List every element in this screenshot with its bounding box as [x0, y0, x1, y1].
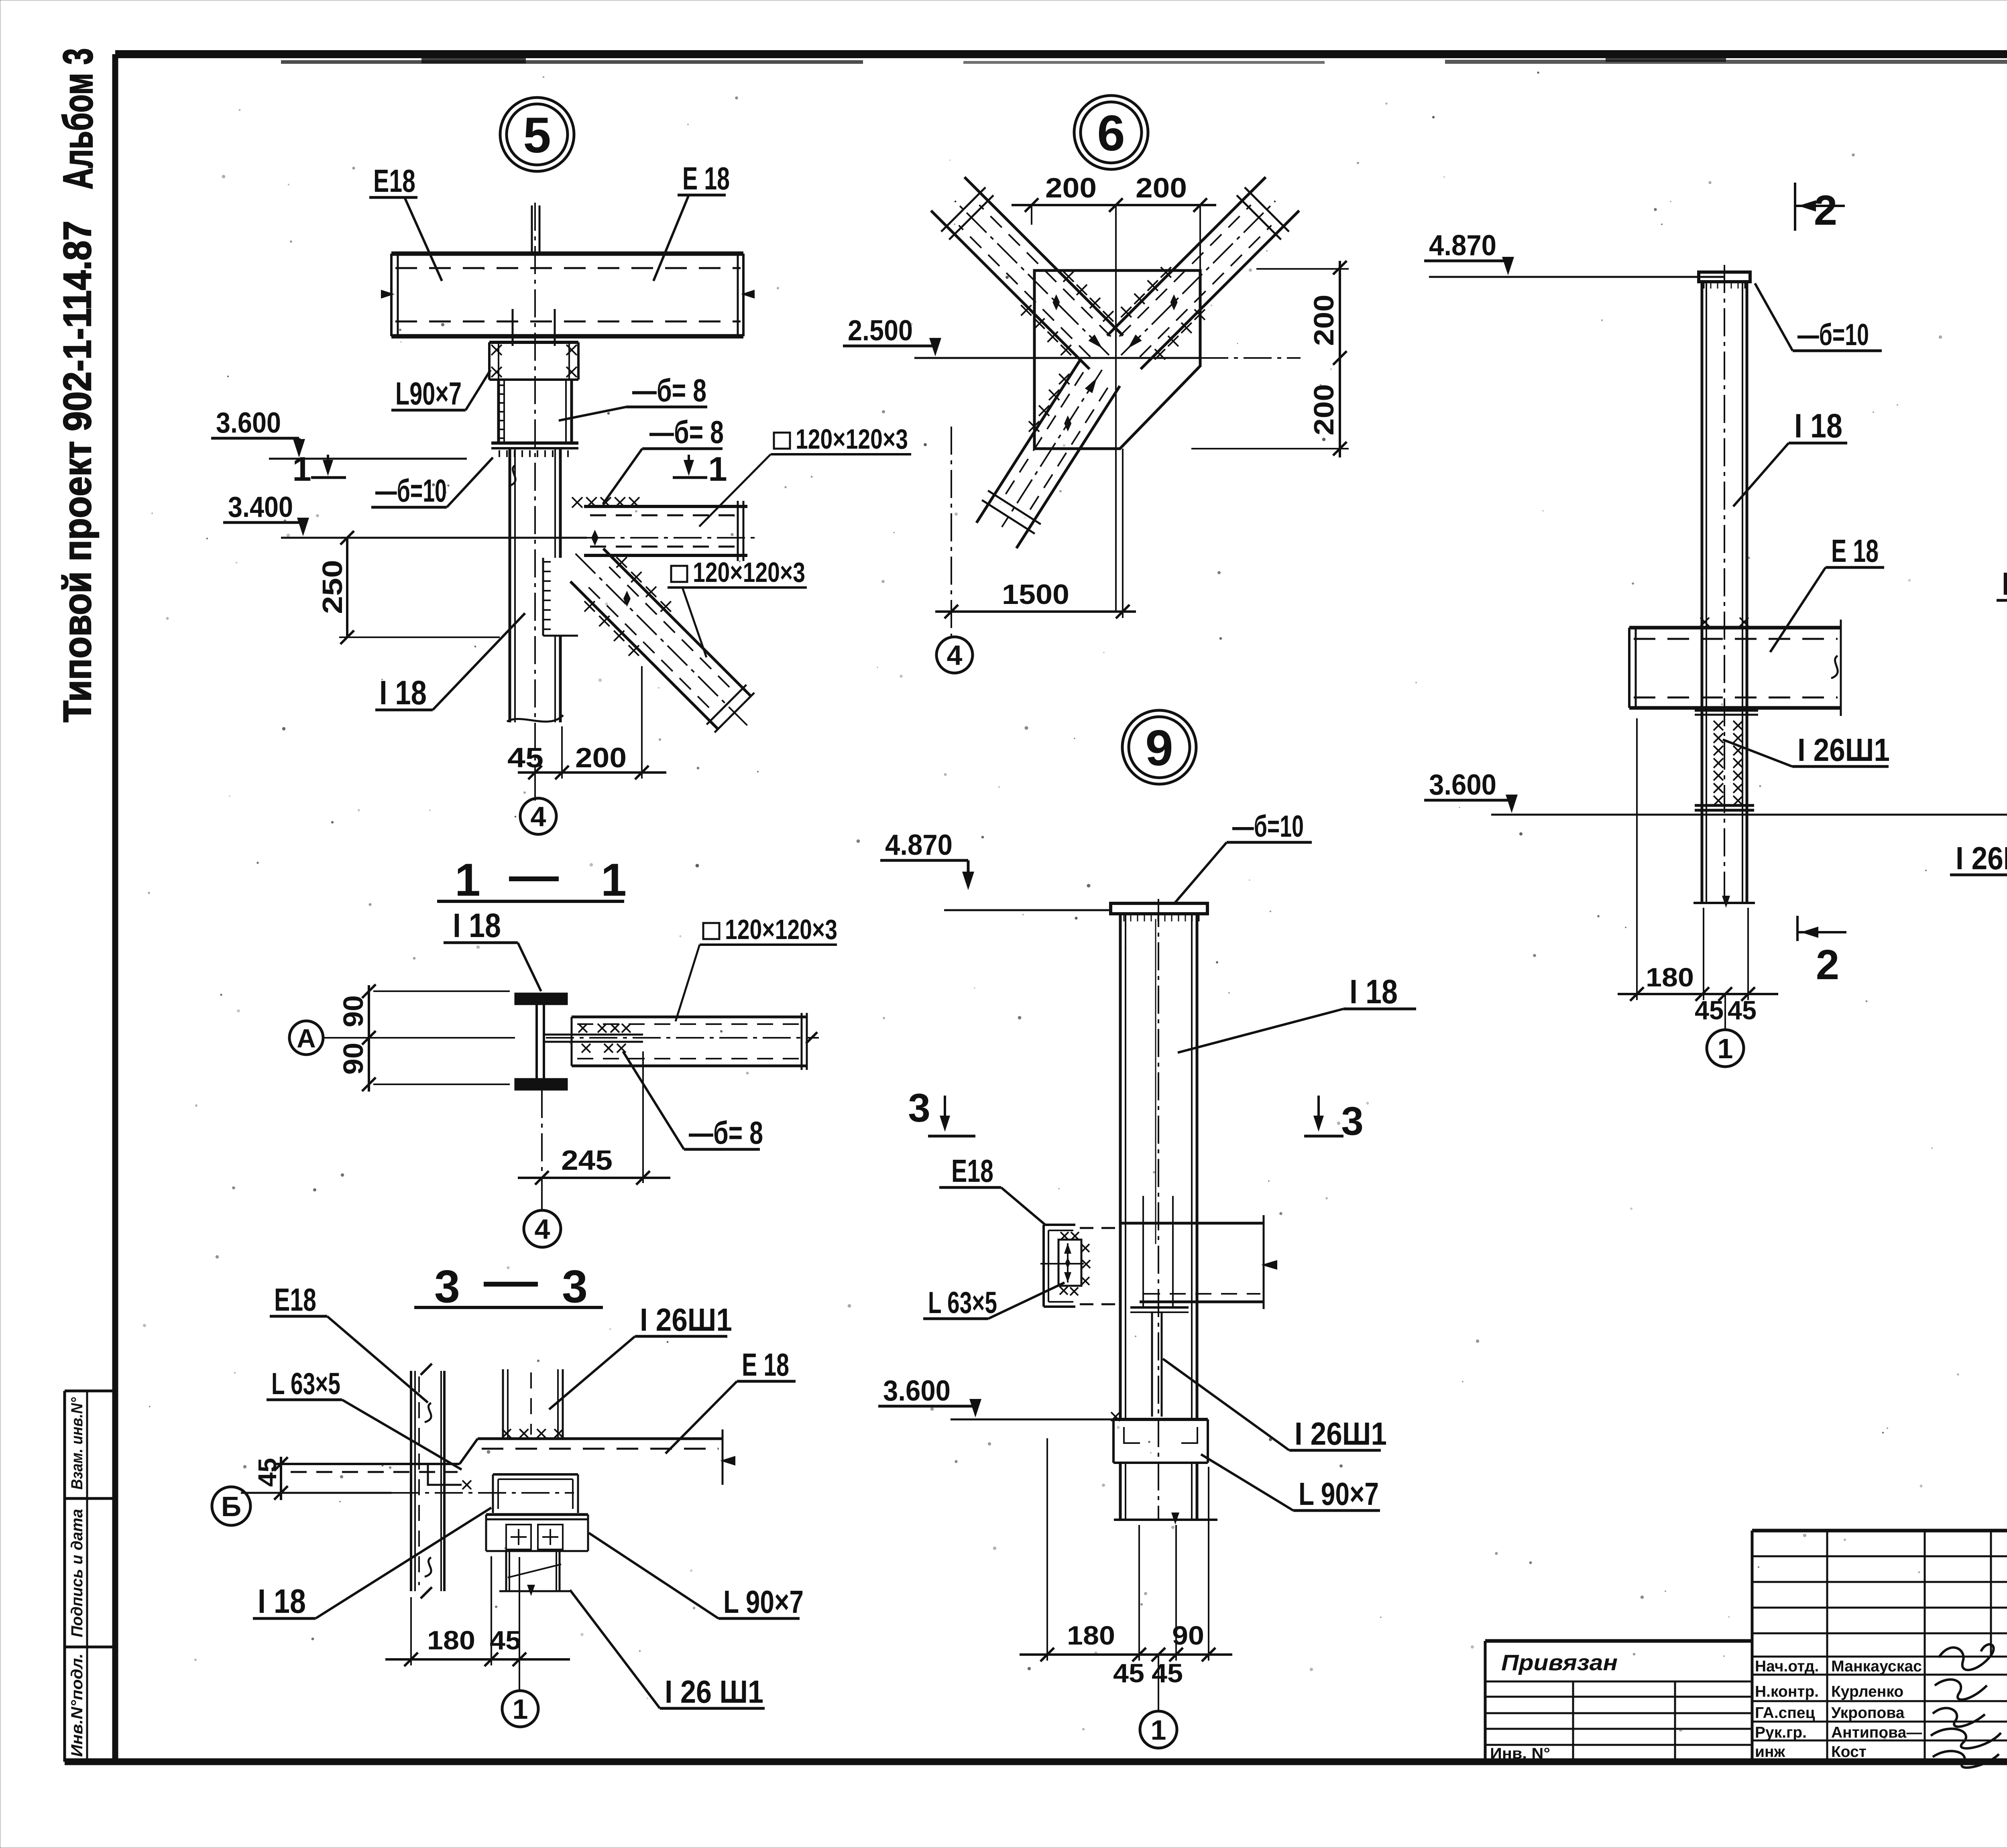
- svg-text:L 63×5: L 63×5: [271, 1367, 340, 1401]
- svg-text:9: 9: [1145, 720, 1173, 776]
- connection plate -b=8 (section 1-1): [544, 1034, 643, 1036]
- svg-text:Е 18: Е 18: [742, 1347, 789, 1382]
- column stub above beam: [531, 205, 533, 254]
- column flange lines through beam: [512, 309, 514, 346]
- svg-text:I 18: I 18: [453, 907, 501, 944]
- svg-text:1: 1: [513, 1693, 528, 1725]
- svg-text:L 90×7: L 90×7: [1299, 1476, 1379, 1512]
- node 6 marker circle: [1074, 96, 1148, 169]
- svg-text:200: 200: [575, 742, 627, 773]
- svg-text:2.500: 2.500: [848, 315, 913, 347]
- grid axis circle A (section 1-1): [289, 1021, 323, 1055]
- gusset plate (node 6): [1034, 270, 1200, 449]
- svg-text:245: 245: [561, 1145, 613, 1176]
- svg-text:I 26Ш1: I 26Ш1: [640, 1302, 732, 1338]
- svg-text:90: 90: [338, 995, 369, 1027]
- dimension 90 90 (section 1-1): [373, 990, 510, 992]
- svg-text:—б=10: —б=10: [1232, 809, 1304, 844]
- beam bottom lines (detail 9): [1080, 1303, 1116, 1305]
- node 9 marker circle: [1122, 710, 1196, 784]
- svg-text:3.600: 3.600: [216, 407, 281, 439]
- L63 angle at purlin (section 3-3): [428, 1464, 462, 1485]
- I26Sh1 strip (section 3-3): [502, 1369, 504, 1437]
- svg-text:—б= 8: —б= 8: [632, 372, 706, 408]
- beam cut marks: [381, 290, 395, 299]
- node 6 vertical center line: [1115, 205, 1117, 612]
- column below level line (detail 8): [1694, 902, 1755, 904]
- grid axis circle B (section 3-3): [212, 1487, 250, 1525]
- svg-text:120×120×3: 120×120×3: [725, 914, 837, 945]
- diagonal brace square tube 120x120x3: [603, 549, 751, 696]
- stub base plate (detail 8): [1695, 804, 1754, 807]
- label tube 120x120x3 (horizontal): [774, 433, 790, 449]
- svg-text:инж: инж: [1755, 1743, 1785, 1761]
- svg-text:3.400: 3.400: [228, 491, 293, 523]
- svg-text:Нач.отд.: Нач.отд.: [1755, 1658, 1819, 1675]
- svg-text:Н.контр.: Н.контр.: [1755, 1683, 1819, 1700]
- title block attachment table Privyazan: [1485, 1639, 1752, 1643]
- level line 3.400 / horizontal brace axis: [281, 537, 587, 539]
- svg-text:Привязан: Привязан: [1501, 1650, 1618, 1675]
- svg-text:Е18: Е18: [274, 1282, 316, 1317]
- level line 4.870 (detail 9): [944, 909, 1110, 911]
- dimension 180 45 45 90 (detail 9): [1046, 1438, 1048, 1661]
- beam top flange line (section 3-3): [276, 1463, 460, 1465]
- svg-text:I 26Ш1: I 26Ш1: [1956, 840, 2007, 876]
- svg-text:Рук.гр.: Рук.гр.: [1755, 1724, 1807, 1741]
- node 6 horizontal center line: [914, 357, 1200, 359]
- title block signatures table: [1752, 1529, 2007, 1533]
- svg-text:Е18: Е18: [373, 163, 415, 199]
- svg-text:Манкаускас: Манкаускас: [1831, 1658, 1922, 1675]
- svg-text:—б=10: —б=10: [1797, 318, 1869, 352]
- dimension 180 45 45 (detail 8): [1636, 718, 1638, 1000]
- grid axis circle 4 (node 6): [936, 637, 973, 673]
- svg-text:2: 2: [1816, 941, 1839, 988]
- grid axis circle 1 (detail 9): [1158, 1655, 1159, 1710]
- dimension 45 200 (detail 5): [561, 726, 563, 779]
- svg-text:I 26 Ш1: I 26 Ш1: [665, 1674, 763, 1710]
- label tube 120x120x3 (section 1-1): [703, 923, 719, 939]
- svg-text:45: 45: [490, 1625, 521, 1655]
- svg-text:1: 1: [601, 854, 627, 906]
- svg-text:120×120×3: 120×120×3: [796, 423, 908, 455]
- column I18 (detail 9): [1119, 914, 1122, 1419]
- level line 3.600 (detail 9): [951, 1419, 1113, 1421]
- column I18 (detail 8): [1701, 281, 1704, 903]
- bracket inner box with weld symbol: [1058, 1240, 1081, 1286]
- svg-text:3.600: 3.600: [1429, 769, 1496, 801]
- inner web lines (detail 9): [1142, 1196, 1144, 1307]
- svg-text:I 18: I 18: [379, 674, 427, 712]
- svg-text:3: 3: [908, 1086, 930, 1130]
- svg-text:Е 18: Е 18: [2002, 566, 2007, 602]
- column I18 axis line: [534, 203, 536, 801]
- svg-text:Антипова—: Антипова—: [1831, 1724, 1922, 1741]
- svg-text:2: 2: [1814, 187, 1837, 234]
- svg-text:4.870: 4.870: [885, 829, 953, 861]
- signature scribbles: [1939, 1644, 1994, 1670]
- svg-text:4.870: 4.870: [1429, 230, 1496, 262]
- level line 3.600: [269, 458, 467, 460]
- svg-text:Взам. инв.N°: Взам. инв.N°: [68, 1397, 86, 1490]
- gusset plate edge with weld comb: [542, 558, 544, 636]
- svg-text:L 63×5: L 63×5: [928, 1286, 997, 1320]
- svg-text:—б= 8: —б= 8: [649, 414, 724, 450]
- column splice stub I26Sh1 (detail 8): [1695, 709, 1758, 712]
- svg-text:45: 45: [253, 1458, 282, 1487]
- svg-text:L90×7: L90×7: [395, 376, 462, 411]
- svg-text:Инв. N°: Инв. N°: [1490, 1745, 1550, 1762]
- beam top line (detail 9): [1080, 1227, 1117, 1229]
- dimension 45 (section 3-3): [280, 1457, 282, 1500]
- svg-text:Курленко: Курленко: [1831, 1683, 1903, 1700]
- beam C18 (two channels, side view): [391, 252, 743, 256]
- weld marks on diagonal brace upper end: [617, 557, 627, 567]
- axis line B (section 3-3): [241, 1492, 391, 1494]
- connection plate L90x7 box: [489, 341, 578, 344]
- weld marks on gusset top edge: [572, 497, 582, 508]
- svg-text:I 18: I 18: [258, 1582, 306, 1620]
- beam dashed line (section 3-3): [482, 1448, 719, 1450]
- svg-text:3: 3: [562, 1261, 588, 1312]
- svg-text:Подпись и дата: Подпись и дата: [68, 1509, 86, 1637]
- svg-text:180: 180: [1067, 1620, 1115, 1650]
- column cap plate (detail 9): [1111, 903, 1207, 914]
- svg-text:4: 4: [947, 640, 963, 671]
- diagonal brace axis: [576, 554, 747, 726]
- column I18 below plate (section 3-3): [505, 1551, 507, 1591]
- beam C18 side view (detail 8): [1629, 626, 1841, 630]
- svg-text:А: А: [297, 1023, 316, 1053]
- svg-text:Типовой проект 902-1-114.87: Типовой проект 902-1-114.87: [55, 221, 99, 722]
- section mark 2 upper (detail 8): [1794, 183, 1796, 231]
- brace tube upper-left (node 6): [965, 177, 1123, 335]
- svg-text:I 26Ш1: I 26Ш1: [1797, 732, 1890, 768]
- scan noise speckles: [910, 323, 913, 326]
- svg-text:1: 1: [708, 450, 727, 488]
- svg-text:1500: 1500: [1002, 579, 1069, 610]
- svg-text:Е 18: Е 18: [1831, 533, 1879, 569]
- svg-text:45: 45: [1113, 1658, 1144, 1688]
- I-beam 18 cross-section plan (section 1-1): [515, 993, 567, 1004]
- svg-text:120×120×3: 120×120×3: [693, 557, 805, 588]
- dimension 1500 (node 6): [935, 610, 1136, 613]
- grid axis circle 4 (section 1-1): [541, 1183, 543, 1210]
- T-stub I26Sh1 below beam (detail 9): [1130, 1306, 1189, 1309]
- grid axis circle 1 (section 3-3): [519, 1557, 520, 1690]
- svg-text:Укропова: Укропова: [1831, 1704, 1905, 1722]
- node 5 marker circle: [500, 98, 574, 171]
- column break at bottom: [507, 715, 563, 722]
- svg-text:200: 200: [1308, 384, 1339, 435]
- purlin bracket C18 (detail 9): [1042, 1225, 1045, 1307]
- svg-text:45: 45: [1728, 995, 1757, 1025]
- svg-text:200: 200: [1308, 295, 1339, 346]
- dimension 245 (section 1-1): [541, 1090, 543, 1183]
- label tube 120x120x3 (diagonal): [671, 566, 687, 582]
- horizontal brace square tube 120x120x3: [584, 505, 747, 508]
- svg-text:180: 180: [427, 1625, 475, 1655]
- weld x-marks around bracket box: [1060, 1232, 1069, 1240]
- svg-text:45: 45: [1695, 995, 1724, 1025]
- vertical dimension 250: [346, 538, 348, 637]
- svg-text:Кост: Кост: [1831, 1743, 1867, 1761]
- svg-text:250: 250: [317, 560, 348, 614]
- svg-text:45: 45: [507, 742, 543, 773]
- beam right end (section 3-3): [722, 1429, 724, 1485]
- angle glyphs inside base plate: [1124, 1427, 1140, 1443]
- diagonal brace end break lines: [714, 693, 754, 732]
- svg-text:Альбом 3: Альбом 3: [55, 48, 102, 189]
- section mark 1 left: [327, 455, 329, 470]
- section mark 1 right: [688, 455, 690, 470]
- svg-text:200: 200: [1045, 172, 1097, 203]
- grid axis circle 4 (detail 5): [534, 779, 536, 798]
- svg-text:Е 18: Е 18: [682, 161, 730, 196]
- svg-text:Е18: Е18: [951, 1153, 993, 1189]
- svg-text:ГА.спец: ГА.спец: [1755, 1704, 1815, 1722]
- svg-text:4: 4: [535, 1214, 550, 1245]
- svg-text:I 18: I 18: [1350, 973, 1398, 1010]
- beam right end (detail 9): [1263, 1215, 1265, 1309]
- grid axis circle 1 (detail 8): [1724, 994, 1726, 1029]
- svg-text:4: 4: [531, 801, 546, 832]
- square tube 120x120 (section 1-1): [572, 1016, 807, 1019]
- column below base (detail 9): [1119, 1463, 1122, 1520]
- level line 4.870 (detail 8): [1429, 276, 1724, 278]
- svg-text:180: 180: [1646, 962, 1694, 992]
- svg-text:1: 1: [1718, 1033, 1733, 1064]
- brace tube lower (node 6): [977, 360, 1080, 522]
- grid axis 4 line (node 6): [951, 427, 952, 636]
- column segment below connection: [497, 380, 500, 443]
- svg-text:3.600: 3.600: [883, 1375, 951, 1407]
- svg-text:200: 200: [1136, 172, 1187, 203]
- svg-text:1: 1: [1151, 1714, 1166, 1746]
- svg-text:1: 1: [455, 854, 480, 906]
- svg-text:1: 1: [292, 450, 311, 488]
- vertical dimension 200 200 (node 6 right): [1256, 268, 1349, 270]
- svg-text:90: 90: [338, 1043, 369, 1075]
- svg-text:6: 6: [1097, 106, 1125, 161]
- svg-text:—б=10: —б=10: [375, 473, 447, 508]
- svg-text:I 18: I 18: [1794, 407, 1842, 445]
- long level line 3.600: [1491, 814, 2007, 816]
- base connection plate (detail 9): [1113, 1418, 1208, 1421]
- svg-text:Б: Б: [221, 1491, 241, 1522]
- svg-text:5: 5: [523, 108, 551, 163]
- dimension 180 45 (section 3-3): [410, 1597, 412, 1665]
- column I18 below (detail 5): [509, 448, 511, 722]
- top border scan smudge: [281, 60, 863, 64]
- column I18 cap plate -b=10 (detail 8): [1699, 272, 1750, 282]
- svg-text:I 26Ш1: I 26Ш1: [1295, 1416, 1387, 1452]
- weld comb on column segment: [498, 384, 504, 386]
- section mark 2 lower (detail 8): [1796, 916, 1799, 941]
- svg-text:3: 3: [1341, 1099, 1364, 1144]
- svg-text:90: 90: [1172, 1620, 1204, 1650]
- channel profile below beam (section 3-3): [493, 1473, 578, 1476]
- drawing frame border: [115, 50, 2007, 58]
- brace tube upper-right (node 6): [1141, 211, 1299, 369]
- svg-text:Инв.N°подл.: Инв.N°подл.: [68, 1653, 86, 1757]
- base plate -b=10 at level 3.600: [491, 441, 578, 445]
- svg-text:L 90×7: L 90×7: [723, 1584, 804, 1620]
- svg-text:—б= 8: —б= 8: [689, 1115, 763, 1151]
- base plate with angles (section 3-3): [486, 1513, 588, 1516]
- svg-text:3: 3: [434, 1261, 460, 1312]
- dimension 200 200 (detail 6 top): [1012, 204, 1216, 206]
- left margin stamp boxes: [65, 1390, 115, 1393]
- purlin C18 vertical (section 3-3): [410, 1371, 412, 1591]
- svg-text:45: 45: [1152, 1658, 1183, 1688]
